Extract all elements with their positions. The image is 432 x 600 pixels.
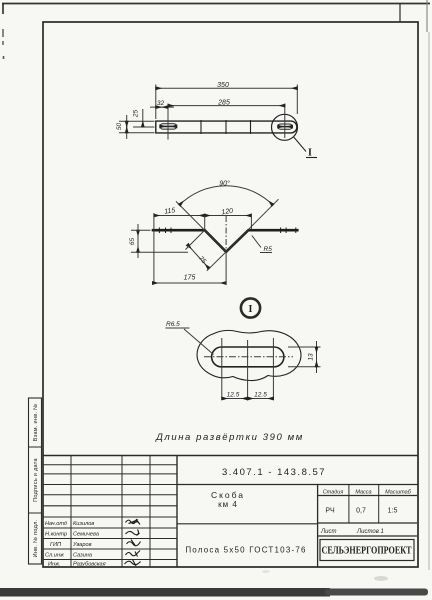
svg-text:Длина развёртки 390 мм: Длина развёртки 390 мм	[155, 432, 304, 443]
svg-text:Полоса 5х50 ГОСТ103-76: Полоса 5х50 ГОСТ103-76	[185, 546, 306, 555]
svg-text:115: 115	[164, 207, 176, 215]
svg-text:Разубовская: Разубовская	[73, 562, 106, 568]
svg-text:Листов 1: Листов 1	[356, 529, 384, 535]
svg-text:3.407.1 - 143.8.57: 3.407.1 - 143.8.57	[222, 467, 326, 478]
svg-text:Инв. № подл.: Инв. № подл.	[33, 519, 39, 557]
svg-text:R5: R5	[264, 246, 273, 253]
svg-text:км 4: км 4	[218, 500, 238, 509]
svg-text:90°: 90°	[219, 180, 230, 188]
svg-text:Семичева: Семичева	[73, 532, 99, 538]
svg-text:65: 65	[129, 238, 136, 246]
svg-text:СЕЛЬЭНЕРГОПРОЕКТ: СЕЛЬЭНЕРГОПРОЕКТ	[322, 546, 412, 557]
svg-text:Н.контр: Н.контр	[45, 532, 67, 538]
svg-text:Лист: Лист	[320, 529, 336, 535]
svg-text:Скоба: Скоба	[211, 490, 245, 500]
svg-text:285: 285	[217, 100, 230, 107]
svg-text:Нач.отд: Нач.отд	[45, 521, 67, 527]
svg-text:12.5: 12.5	[254, 392, 267, 399]
svg-text:175: 175	[184, 275, 196, 282]
svg-text:R6.5: R6.5	[166, 321, 180, 328]
svg-text:I: I	[249, 304, 253, 315]
svg-text:350: 350	[217, 82, 229, 89]
svg-text:Взам. инв. №: Взам. инв. №	[33, 404, 39, 442]
svg-text:Сазина: Сазина	[73, 553, 92, 559]
svg-text:I: I	[308, 148, 312, 159]
svg-text:13: 13	[308, 353, 315, 361]
svg-text:1:5: 1:5	[388, 508, 398, 515]
svg-text:25: 25	[133, 110, 140, 119]
svg-text:Масса: Масса	[355, 490, 371, 496]
svg-text:Уваров: Уваров	[72, 542, 92, 548]
svg-text:Инж.: Инж.	[48, 562, 60, 568]
svg-text:32: 32	[157, 100, 165, 107]
svg-text:Сл.инж: Сл.инж	[45, 553, 65, 559]
svg-text:Масштаб: Масштаб	[385, 490, 412, 496]
svg-text:РЧ: РЧ	[325, 508, 335, 515]
svg-text:Подпись и дата: Подпись и дата	[33, 457, 39, 501]
svg-text:12.5: 12.5	[227, 392, 240, 399]
svg-text:Кизилов: Кизилов	[73, 521, 94, 527]
svg-text:0,7: 0,7	[356, 508, 366, 515]
svg-text:Стадия: Стадия	[323, 490, 344, 496]
svg-text:ГИП: ГИП	[50, 542, 62, 548]
svg-text:50: 50	[116, 123, 123, 131]
